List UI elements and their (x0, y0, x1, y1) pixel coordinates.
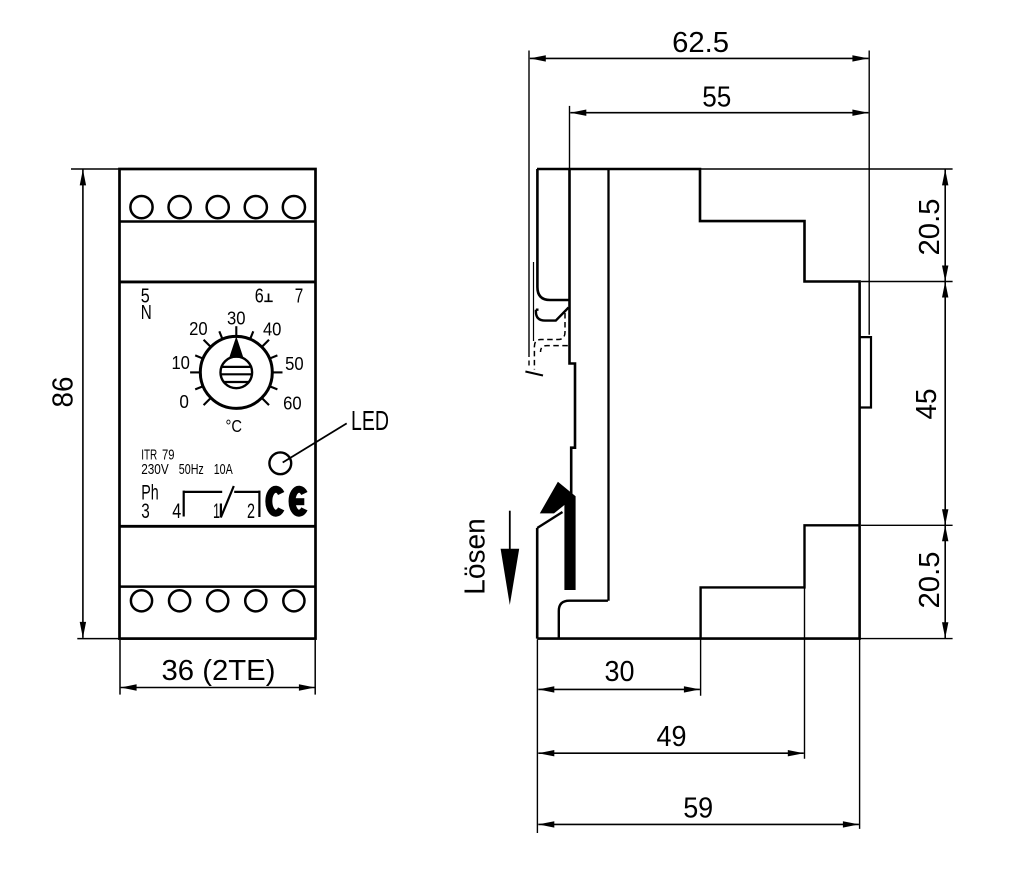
clip released dashed front (528, 352, 530, 369)
relay contact symbol (184, 486, 260, 518)
side bottom rear steps (701, 525, 860, 638)
svg-text:20.5: 20.5 (914, 552, 946, 609)
svg-text:49: 49 (657, 721, 687, 753)
dim 59 line (538, 823, 859, 825)
svg-text:1: 1 (213, 500, 220, 523)
dim 86 extension bottom (77, 638, 119, 640)
svg-text:45: 45 (911, 389, 943, 420)
dim 30 line (538, 688, 700, 690)
bottom dims extensions (537, 587, 859, 833)
dial outer circle (200, 336, 272, 408)
bottom foot (559, 601, 608, 639)
dim 30 arrows (538, 686, 554, 692)
svg-text:°C: °C (226, 416, 243, 436)
right dims line (944, 169, 946, 638)
clip released dashed outline 2 (541, 346, 568, 352)
svg-text:LED: LED (351, 405, 389, 436)
dim 49 arrows (538, 750, 554, 756)
svg-text:40: 40 (263, 320, 282, 340)
dial knob circle (221, 357, 253, 389)
svg-text:N: N (141, 301, 152, 324)
LED circle (269, 452, 291, 474)
right dims arrows (942, 169, 948, 185)
side outline top and right steps (537, 169, 860, 639)
CE mark E (292, 489, 304, 513)
CE mark C (269, 489, 281, 513)
inner vertical edge (607, 170, 609, 601)
svg-text:60: 60 (283, 394, 302, 414)
top terminal block line (120, 220, 316, 223)
clip end tick (525, 372, 543, 376)
svg-text:55: 55 (702, 82, 731, 114)
dim 62.5 arrows (530, 55, 546, 61)
dim 55 extension left (569, 106, 571, 169)
svg-text:10: 10 (171, 353, 190, 373)
knob pointer triangle (229, 336, 243, 358)
svg-text:6: 6 (255, 284, 264, 307)
release lip diagonal (537, 512, 562, 528)
knob slot lines (221, 367, 252, 382)
terminal screws bottom row (131, 590, 305, 611)
Loesen arrow (509, 511, 511, 552)
rear DIN latch tab (860, 337, 871, 407)
svg-text:Lösen: Lösen (460, 518, 492, 595)
svg-text:20.5: 20.5 (914, 199, 946, 256)
svg-text:59: 59 (683, 793, 713, 825)
dim 62.5 line (530, 57, 869, 59)
svg-text:50: 50 (285, 354, 304, 374)
svg-text:86: 86 (48, 377, 80, 408)
terminal screws top row (130, 196, 305, 218)
svg-text:50Hz: 50Hz (179, 461, 204, 478)
bottom terminal block line (120, 585, 316, 588)
LED pointer line (283, 423, 347, 462)
side front face upper (570, 169, 576, 505)
svg-text:2: 2 (247, 500, 255, 523)
dim 59 arrows (538, 821, 554, 827)
panel top line (120, 280, 316, 283)
clip front thin edge (533, 262, 535, 341)
dim 36 extension left (119, 640, 121, 695)
dim 36 arrows (121, 684, 137, 690)
svg-text:10A: 10A (214, 461, 233, 478)
dim 36 line (121, 687, 315, 689)
svg-text:20: 20 (189, 319, 208, 339)
release black arrow (540, 482, 576, 590)
svg-text:3: 3 (141, 500, 150, 523)
dim 49 line (538, 752, 804, 754)
clip released dashed outline 1 (534, 313, 565, 370)
svg-text:30: 30 (227, 309, 246, 329)
dim 55 arrows (570, 110, 586, 116)
clip hook (536, 308, 569, 321)
panel bottom line (120, 525, 316, 528)
svg-text:30: 30 (605, 656, 635, 688)
dim 36 extension right (314, 640, 316, 695)
svg-text:7: 7 (295, 284, 304, 307)
earth symbol at 6 (264, 294, 272, 302)
dim 86 arrows (80, 169, 86, 185)
side front face lower (536, 528, 539, 639)
right dims extensions (700, 169, 953, 639)
clip channel (537, 169, 569, 300)
dim 55 line (570, 112, 868, 114)
dim 62.5 extension left (528, 51, 530, 353)
svg-text:62.5: 62.5 (672, 27, 729, 59)
dim 86 line (82, 169, 84, 638)
svg-text:0: 0 (179, 392, 189, 412)
svg-text:230V: 230V (141, 461, 169, 478)
dial ticks (190, 326, 282, 405)
svg-text:36 (2TE): 36 (2TE) (162, 655, 276, 687)
svg-text:4: 4 (172, 500, 181, 523)
device body outline front view (120, 169, 316, 639)
dim 62.5 extension right (868, 51, 870, 335)
dim 86 extension top (71, 168, 120, 170)
